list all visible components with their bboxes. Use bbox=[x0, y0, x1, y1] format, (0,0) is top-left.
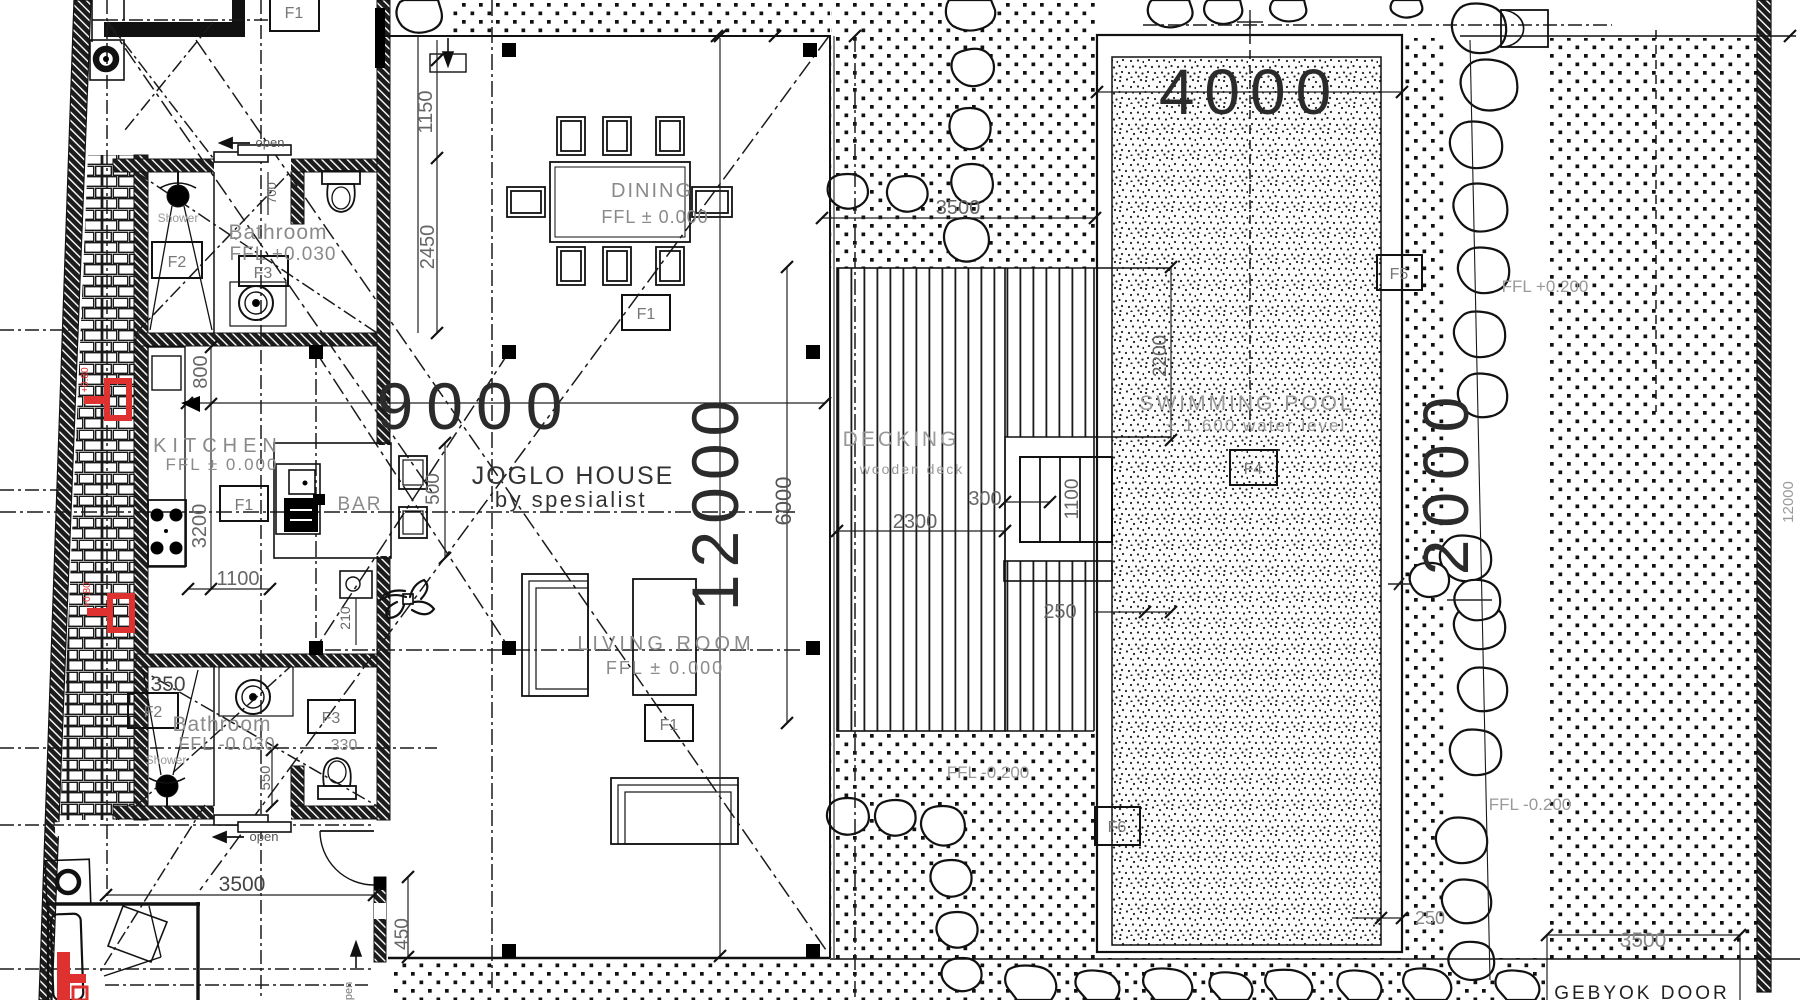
right boundary wall bbox=[1757, 0, 1771, 992]
dim 9000 line bbox=[187, 402, 825, 404]
svg-text:550: 550 bbox=[257, 765, 274, 790]
dim 450 line bbox=[407, 877, 409, 957]
svg-text:330: 330 bbox=[331, 737, 358, 754]
svg-text:450: 450 bbox=[392, 918, 413, 950]
svg-text:SWIMMING POOL: SWIMMING POOL bbox=[1139, 392, 1354, 415]
dim 250 line bbox=[1094, 611, 1171, 613]
house right edge bbox=[829, 36, 831, 958]
living sofa horizontal bbox=[611, 778, 738, 844]
house right edge inner line bbox=[833, 36, 835, 958]
pool stair lower strip bbox=[1004, 561, 1112, 581]
F3 bathroom1 bbox=[239, 256, 288, 286]
terrace bed bbox=[51, 914, 84, 1000]
F1 box living bbox=[645, 705, 693, 741]
pebble top-left of pool bbox=[396, 0, 441, 33]
vertical axis x=492 bbox=[491, 0, 493, 990]
living sofa vertical bbox=[522, 574, 588, 696]
bathroom2 cross bbox=[136, 667, 377, 806]
svg-text:300: 300 bbox=[968, 488, 1001, 510]
svg-text:3500: 3500 bbox=[1620, 929, 1667, 952]
dim 550 line bath2 bbox=[271, 750, 273, 806]
deck top edge extension to pool bbox=[1005, 436, 1171, 438]
wall face line left of dining bbox=[417, 36, 419, 333]
black blob arrow at 9000 left bbox=[181, 396, 200, 412]
svg-text:12000: 12000 bbox=[1780, 481, 1797, 523]
svg-text:by spesialist: by spesialist bbox=[495, 487, 647, 512]
terrace east wall bbox=[374, 877, 386, 962]
white stepping path in right gravel field bbox=[1446, 38, 1546, 960]
svg-text:KITCHEN: KITCHEN bbox=[153, 435, 283, 457]
left slanted boundary wall bbox=[39, 0, 91, 1000]
kitchen / bathroom2 wall bbox=[136, 654, 377, 667]
svg-text:12000: 12000 bbox=[678, 393, 752, 612]
svg-text:LIVING ROOM: LIVING ROOM bbox=[577, 633, 754, 655]
red pipe bottom bbox=[57, 952, 70, 1000]
dim 1150/2450 line bbox=[436, 40, 438, 333]
svg-text:F1: F1 bbox=[235, 497, 254, 514]
svg-text:+0.80: +0.80 bbox=[80, 367, 91, 393]
vertical axis x=261 bbox=[260, 0, 262, 1000]
svg-text:350: 350 bbox=[150, 673, 185, 696]
F2 bathroom1 bbox=[152, 242, 202, 278]
svg-text:F2: F2 bbox=[144, 704, 163, 721]
F4 box pool bbox=[1230, 450, 1277, 485]
terrace room bbox=[47, 902, 200, 905]
svg-text:1100: 1100 bbox=[1062, 479, 1083, 520]
svg-text:FFL +0.030: FFL +0.030 bbox=[230, 244, 337, 265]
gravel strip above house bbox=[450, 0, 830, 36]
red mark upper bbox=[107, 381, 129, 418]
svg-text:FFL ± 0.000: FFL ± 0.000 bbox=[166, 455, 279, 474]
decking outline bbox=[837, 268, 1005, 731]
brick path left bbox=[60, 155, 134, 820]
svg-text:250: 250 bbox=[1043, 601, 1076, 623]
svg-text:Shower: Shower bbox=[146, 753, 187, 767]
svg-text:2000: 2000 bbox=[1410, 385, 1482, 575]
dim 6000 line bbox=[786, 267, 788, 723]
svg-text:wooden deck: wooden deck bbox=[859, 461, 965, 477]
terrace column ring bbox=[57, 871, 79, 893]
dining table bbox=[550, 162, 690, 242]
F6 box pool left bbox=[1095, 807, 1140, 845]
svg-text:2450: 2450 bbox=[417, 225, 439, 270]
svg-text:BAR: BAR bbox=[337, 494, 382, 515]
washing machine drum bbox=[96, 49, 116, 69]
bar counter dark fill bbox=[284, 498, 318, 532]
living coffee table bbox=[633, 579, 696, 695]
big 2000 pebbles zone doubles bbox=[1440, 536, 1491, 582]
svg-text:500: 500 bbox=[423, 473, 444, 505]
swimming pool water edge bbox=[1112, 57, 1381, 945]
diagonal through kitchen bay bbox=[107, 22, 432, 492]
gravel area below decking bbox=[831, 731, 1095, 960]
dim 2300 line bbox=[837, 530, 1005, 532]
gravel field right of pool bbox=[1403, 38, 1757, 960]
terrace diagonal bbox=[100, 805, 205, 972]
bar room outline bbox=[274, 443, 391, 558]
svg-text:3500: 3500 bbox=[936, 197, 981, 219]
dim 800/3200 line bbox=[210, 347, 212, 589]
bottom pebble row bbox=[1005, 966, 1056, 1000]
dim 250 pool bottom line bbox=[1352, 917, 1402, 919]
horizontal axis y=650 segment bbox=[325, 649, 800, 651]
svg-text:9000: 9000 bbox=[377, 369, 576, 443]
svg-text:250: 250 bbox=[1415, 908, 1445, 928]
svg-text:F4: F4 bbox=[1244, 461, 1263, 478]
vertical axis x=316 bar bbox=[315, 352, 317, 648]
dining chairs bottom row bbox=[557, 247, 585, 285]
bathroom1 top wall bbox=[113, 159, 377, 172]
F1 top-left bbox=[270, 0, 319, 31]
window symbol top bbox=[430, 54, 466, 72]
red mark lower bbox=[110, 596, 132, 630]
annex west wall bbox=[134, 155, 148, 820]
dim 3500 top line bbox=[822, 217, 1095, 219]
svg-text:FFL -0.200: FFL -0.200 bbox=[947, 763, 1030, 782]
svg-text:4000: 4000 bbox=[1159, 56, 1341, 128]
svg-text:F1: F1 bbox=[660, 717, 679, 734]
left margin stubs bbox=[0, 329, 70, 331]
svg-text:3200: 3200 bbox=[189, 504, 211, 549]
gate symbol top right bbox=[1501, 10, 1548, 47]
svg-text:6000: 6000 bbox=[771, 477, 796, 526]
svg-text:FFL ± 0.000: FFL ± 0.000 bbox=[606, 658, 724, 678]
svg-text:FFL -0.200: FFL -0.200 bbox=[1489, 795, 1572, 814]
bathroom1 cross bbox=[136, 172, 377, 333]
dining chair left bbox=[507, 187, 545, 217]
svg-text:F1: F1 bbox=[637, 306, 656, 323]
pool centerline top tick bbox=[1237, 10, 1263, 34]
dim 4000 line bbox=[1097, 91, 1402, 93]
house bottom edge bbox=[388, 957, 830, 960]
gravel area between house and pool (top) bbox=[831, 0, 1095, 268]
dim 700 line bath1 bbox=[267, 172, 269, 215]
big diagonal top-left to bottom-right bbox=[196, 40, 826, 950]
door swing bottom bbox=[320, 831, 374, 885]
dim 210 tick bbox=[355, 598, 357, 645]
svg-text:Bathroom: Bathroom bbox=[228, 221, 327, 244]
svg-text:open: open bbox=[343, 982, 355, 1000]
svg-text:+0.80: +0.80 bbox=[82, 582, 93, 608]
svg-text:JOGLO HOUSE: JOGLO HOUSE bbox=[472, 462, 675, 490]
sliding door bathroom2 bbox=[214, 815, 268, 825]
washing machine top-left bbox=[90, 40, 124, 80]
pool centerline bbox=[1249, 20, 1251, 432]
big diagonal top-right to lower-left bbox=[200, 36, 829, 890]
pool top line extension right bbox=[1460, 35, 1796, 37]
pebble cluster below decking bbox=[827, 798, 869, 835]
box with circle (floor drain) bbox=[340, 571, 372, 598]
annex east wall bbox=[377, 0, 390, 820]
pebble column right of pool bbox=[1450, 122, 1502, 169]
pebble column between house and pool bbox=[946, 0, 995, 31]
svg-text:1150: 1150 bbox=[415, 90, 437, 133]
dining chairs top row bbox=[557, 117, 585, 155]
svg-text:Shower: Shower bbox=[158, 211, 199, 225]
dim 3500 terrace line bbox=[106, 894, 374, 896]
dim 1100 kitchen line bbox=[188, 588, 270, 590]
top-left room west edge bbox=[92, 0, 124, 42]
F2 bathroom2 bbox=[128, 693, 178, 728]
svg-text:GEBYOK DOOR: GEBYOK DOOR bbox=[1554, 983, 1730, 1000]
kitchen counter bbox=[148, 347, 185, 567]
bathroom1 toilet partition wall bbox=[291, 172, 304, 224]
sink bathroom1 bbox=[230, 282, 286, 326]
down arrow top window bbox=[443, 38, 453, 66]
F5 box pool right bbox=[1377, 255, 1422, 290]
arrow tick on pool right edge bbox=[1388, 578, 1492, 600]
vertical axis through annex bbox=[106, 0, 108, 902]
svg-text:± 1.600 water level: ± 1.600 water level bbox=[1166, 416, 1347, 435]
svg-text:2200: 2200 bbox=[1150, 335, 1171, 377]
open arrows bbox=[214, 138, 250, 842]
svg-text:FFL ± 0.000: FFL ± 0.000 bbox=[601, 207, 708, 227]
toilet bathroom2 bbox=[318, 758, 356, 799]
svg-text:2300: 2300 bbox=[893, 511, 938, 533]
pebble row above pool bbox=[1148, 0, 1193, 27]
top-left room diagonals bbox=[108, 22, 213, 158]
sink bathroom2 bbox=[219, 667, 293, 716]
dim 2200 line bbox=[1170, 267, 1172, 440]
svg-text:DECKING: DECKING bbox=[843, 428, 960, 451]
svg-text:FFL -0.030: FFL -0.030 bbox=[178, 734, 275, 754]
vertical axis deck x=855 bbox=[854, 36, 856, 1000]
svg-text:F6: F6 bbox=[1108, 819, 1127, 836]
dining chair right bbox=[692, 187, 732, 217]
bathroom2 toilet partition wall bbox=[291, 766, 304, 806]
svg-text:F3: F3 bbox=[254, 265, 273, 282]
dim 300 line bbox=[1005, 501, 1050, 503]
svg-text:open: open bbox=[250, 829, 279, 844]
svg-text:800: 800 bbox=[190, 355, 212, 388]
svg-text:3500: 3500 bbox=[219, 873, 266, 896]
ground line to right boundary bbox=[830, 958, 1800, 960]
top-left room bottom wall bbox=[104, 22, 245, 37]
shower bathroom1 bbox=[150, 172, 214, 333]
bar opening in east wall bbox=[375, 445, 392, 556]
axis stub to F1 top-left bbox=[104, 19, 270, 21]
svg-text:F3: F3 bbox=[322, 710, 341, 727]
toilet bathroom1 bbox=[322, 171, 360, 212]
kitchen stove bbox=[148, 500, 186, 566]
bathroom2 bottom wall bbox=[113, 806, 377, 819]
bar counter outline bbox=[276, 464, 320, 534]
swimming pool outer rim bbox=[1097, 35, 1402, 952]
svg-text:1100: 1100 bbox=[216, 568, 259, 590]
bar stools bbox=[399, 456, 427, 489]
F3 bathroom2 bbox=[308, 700, 355, 733]
dim 12000 line bbox=[719, 38, 721, 956]
sliding door bathroom1 bbox=[214, 152, 268, 162]
svg-text:DINING: DINING bbox=[611, 180, 693, 202]
folding door panel bbox=[108, 906, 167, 962]
dim 500 line bbox=[444, 443, 446, 558]
dim 3500 gebyok line bbox=[1547, 934, 1740, 936]
ceiling fan symbol bbox=[380, 580, 434, 618]
svg-text:Bathroom: Bathroom bbox=[172, 713, 271, 736]
F1 kitchen bbox=[220, 486, 268, 521]
svg-text:F5: F5 bbox=[1390, 266, 1409, 283]
top-left room right wall bbox=[232, 0, 245, 22]
up arrow near terrace bbox=[351, 942, 361, 968]
bathroom1 / kitchen wall bbox=[136, 333, 377, 346]
decking wooden boards bbox=[837, 268, 1005, 731]
terrace column box bbox=[45, 859, 91, 905]
pebble pair near 3500 dim bbox=[828, 174, 868, 209]
top right dash-dot y=28 bbox=[1143, 24, 1612, 26]
svg-text:F2: F2 bbox=[168, 254, 187, 271]
gravel bottom strip right bbox=[1095, 958, 1545, 1000]
svg-text:210: 210 bbox=[337, 606, 353, 630]
svg-text:F1: F1 bbox=[285, 5, 304, 22]
stepping path guide line right bbox=[1470, 40, 1490, 980]
gravel strip below house bbox=[390, 958, 1095, 1000]
swimming pool water fine stipple bbox=[1112, 57, 1381, 945]
pool stair box bbox=[1020, 457, 1112, 542]
horizontal house centerline y=512 bbox=[0, 511, 795, 513]
svg-text:700: 700 bbox=[264, 182, 279, 204]
bar bay cross bbox=[316, 352, 509, 648]
burners on stove bbox=[151, 509, 183, 555]
house top edge bbox=[385, 35, 831, 37]
svg-text:open: open bbox=[256, 135, 285, 150]
shower bathroom2 bbox=[143, 667, 214, 806]
F1 box dining bbox=[622, 295, 670, 330]
right dashed line x=1656 bbox=[1655, 30, 1657, 412]
svg-text:FFL +0.200: FFL +0.200 bbox=[1502, 277, 1589, 296]
